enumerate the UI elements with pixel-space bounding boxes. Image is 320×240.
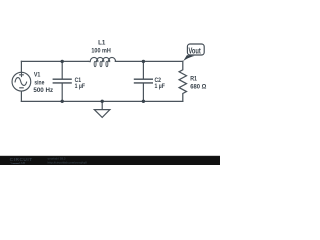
- svg-text:100 mH: 100 mH: [91, 48, 111, 55]
- svg-text:1 µF: 1 µF: [75, 83, 85, 90]
- svg-text:sine: sine: [34, 80, 44, 87]
- svg-text:R1: R1: [190, 75, 197, 82]
- svg-text:Vout: Vout: [189, 47, 201, 56]
- svg-text:∿▬▬LAB: ∿▬▬LAB: [10, 161, 26, 165]
- svg-text:V1: V1: [34, 71, 41, 78]
- svg-text:680 Ω: 680 Ω: [190, 84, 206, 91]
- svg-text:500 Hz: 500 Hz: [33, 87, 53, 94]
- svg-text:1 µF: 1 µF: [155, 83, 165, 90]
- svg-text:http://circuitlab.com/cvsujkp5: http://circuitlab.com/cvsujkp5: [48, 161, 88, 165]
- svg-text:L1: L1: [98, 40, 106, 47]
